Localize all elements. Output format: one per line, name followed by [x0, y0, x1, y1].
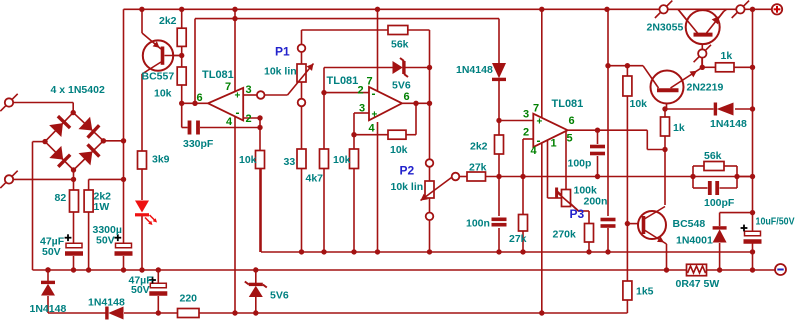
svg-text:1N4148: 1N4148 — [88, 297, 125, 309]
svg-text:2: 2 — [358, 85, 364, 97]
svg-text:+: + — [372, 110, 378, 121]
svg-text:33: 33 — [284, 156, 296, 168]
svg-text:2k2: 2k2 — [470, 141, 488, 153]
svg-text:3k9: 3k9 — [152, 154, 170, 166]
svg-text:1N4001: 1N4001 — [676, 235, 713, 247]
svg-text:+: + — [537, 117, 543, 128]
svg-text:P3: P3 — [570, 207, 585, 221]
svg-text:2: 2 — [523, 127, 529, 139]
svg-text:50V: 50V — [96, 235, 115, 247]
svg-text:2N2219: 2N2219 — [687, 82, 724, 94]
svg-text:TL081: TL081 — [327, 75, 359, 87]
svg-text:27k: 27k — [469, 162, 487, 174]
svg-text:1N4148: 1N4148 — [30, 303, 67, 315]
svg-text:220: 220 — [180, 293, 198, 305]
svg-text:10k: 10k — [333, 154, 351, 166]
svg-text:200n: 200n — [584, 196, 608, 208]
svg-text:10k lin: 10k lin — [391, 181, 424, 193]
svg-text:4: 4 — [531, 145, 538, 157]
svg-text:56k: 56k — [704, 150, 722, 162]
svg-text:10k: 10k — [630, 98, 648, 110]
svg-text:4: 4 — [369, 123, 376, 135]
svg-text:1k: 1k — [673, 122, 685, 134]
svg-text:1W: 1W — [94, 201, 110, 213]
svg-text:P1: P1 — [275, 45, 290, 59]
svg-text:-: - — [537, 134, 541, 148]
svg-text:BC557: BC557 — [142, 71, 175, 83]
svg-text:100n: 100n — [466, 218, 490, 230]
svg-text:270k: 270k — [553, 229, 577, 241]
svg-text:100pF: 100pF — [704, 197, 735, 209]
svg-text:P2: P2 — [400, 164, 415, 178]
svg-text:3: 3 — [359, 103, 365, 115]
svg-text:4: 4 — [226, 116, 233, 128]
svg-text:1k: 1k — [721, 50, 733, 62]
svg-text:10k lin: 10k lin — [264, 66, 297, 78]
svg-text:5V6: 5V6 — [392, 80, 411, 92]
svg-text:82: 82 — [55, 192, 67, 204]
svg-text:BC548: BC548 — [673, 218, 706, 230]
svg-text:10uF/50V: 10uF/50V — [756, 217, 795, 228]
svg-text:3: 3 — [523, 109, 529, 121]
svg-text:330pF: 330pF — [183, 138, 214, 150]
svg-text:2: 2 — [246, 113, 252, 125]
svg-text:4k7: 4k7 — [306, 173, 324, 185]
svg-text:TL081: TL081 — [552, 98, 584, 110]
svg-text:1N4148: 1N4148 — [456, 64, 493, 76]
svg-text:+: + — [235, 91, 241, 102]
svg-text:6: 6 — [569, 115, 575, 127]
svg-text:10k: 10k — [239, 154, 257, 166]
svg-text:-: - — [236, 106, 240, 120]
svg-text:27k: 27k — [509, 233, 527, 245]
svg-text:1N4148: 1N4148 — [710, 118, 747, 130]
svg-text:50V: 50V — [131, 284, 150, 296]
svg-text:1: 1 — [551, 138, 557, 150]
svg-text:5V6: 5V6 — [270, 290, 289, 302]
svg-text:7: 7 — [533, 103, 539, 115]
svg-text:7: 7 — [225, 81, 231, 93]
svg-text:50V: 50V — [42, 246, 61, 258]
svg-text:100p: 100p — [568, 158, 592, 170]
svg-text:10k: 10k — [390, 144, 408, 156]
svg-text:3: 3 — [246, 84, 252, 96]
svg-text:10k: 10k — [154, 88, 172, 100]
svg-text:2k2: 2k2 — [159, 15, 177, 27]
svg-text:2N3055: 2N3055 — [647, 22, 684, 34]
svg-text:56k: 56k — [391, 39, 409, 51]
svg-text:5: 5 — [567, 133, 573, 145]
svg-text:-: - — [372, 87, 376, 101]
svg-text:6: 6 — [404, 91, 410, 103]
svg-text:TL081: TL081 — [202, 69, 234, 81]
svg-text:4 x 1N5402: 4 x 1N5402 — [51, 84, 105, 96]
svg-text:0R47 5W: 0R47 5W — [676, 278, 720, 290]
svg-text:1k5: 1k5 — [636, 286, 654, 298]
